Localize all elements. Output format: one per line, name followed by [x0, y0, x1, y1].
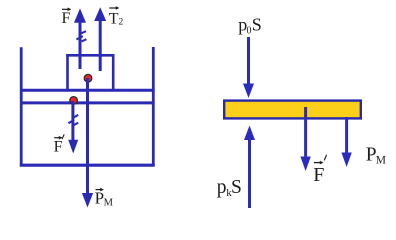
svg-text:M: M — [376, 155, 386, 167]
wire: vessel left wall — [20, 47, 23, 166]
svg-text:S: S — [252, 15, 262, 35]
wire: small box on piston (top) — [66, 54, 114, 57]
label pkS — [217, 177, 242, 199]
label P_M (vector, subscript M) — [95, 188, 114, 209]
arrow T2 (tension upward) — [94, 7, 106, 71]
arrow P_M (weight, downward below vessel) — [82, 193, 93, 208]
svg-text:F: F — [313, 164, 324, 186]
wire: piston plate upper line — [20, 89, 155, 92]
svg-text:p: p — [217, 177, 227, 198]
plate (yellow slab) — [224, 101, 361, 119]
wire: piston plate lower line — [20, 101, 155, 104]
arrow p0S (down onto plate) — [243, 37, 254, 98]
arrow F (upward force on rod, with break) — [74, 8, 86, 69]
arrow F' (down from plate centre) — [300, 107, 310, 171]
svg-text:M: M — [104, 197, 114, 208]
arrow P_M (down from plate right) — [341, 117, 351, 167]
label T2 (vector, subscript 2) — [109, 6, 124, 28]
svg-text:S: S — [231, 177, 242, 198]
wire: vessel bottom — [20, 164, 155, 167]
node: red pivot on piston (upper) — [84, 74, 92, 82]
svg-text:T: T — [109, 11, 119, 28]
svg-text:F: F — [54, 139, 63, 156]
svg-text:F: F — [62, 10, 71, 27]
node: red pivot on lower plate — [70, 97, 78, 105]
label F' (vector, prime) — [54, 134, 65, 155]
label F' (vector, prime) — [313, 155, 326, 186]
label p0S — [238, 15, 262, 37]
label F (vector) — [62, 8, 72, 28]
arrow pkS (up onto plate from below) — [244, 126, 255, 209]
arrow F' (downward from lower pivot, with break) — [68, 101, 78, 154]
svg-text:2: 2 — [119, 18, 124, 28]
wire: central rod from upper pivot downward — [86, 78, 89, 196]
wire: small box left side — [66, 54, 69, 90]
label P_M (subscript M) — [366, 144, 386, 166]
wire: vessel right wall — [152, 47, 155, 166]
wire: small box right side — [112, 54, 115, 90]
